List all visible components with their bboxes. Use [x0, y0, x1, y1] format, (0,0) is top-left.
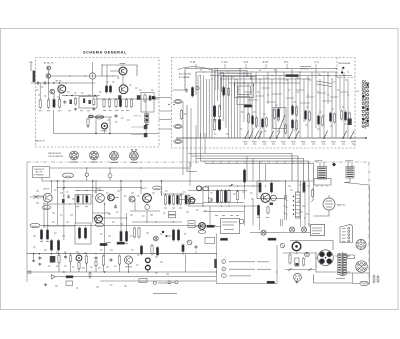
wire y269 diode arrows	[285, 269, 315, 271]
wire x121 vert	[120, 181, 122, 232]
rotated tiny labels	[279, 219, 281, 221]
meter circle pair b	[175, 281, 178, 284]
diode D1 bar	[211, 198, 213, 203]
wire osc vertical	[92, 79, 94, 95]
oval label BA114	[153, 186, 162, 190]
vert x75.5 low	[75, 204, 77, 223]
supply wire y253.7	[27, 253, 216, 255]
detector resistor r1	[259, 183, 261, 192]
legend text 3	[229, 275, 251, 277]
oval label Q21	[198, 230, 206, 233]
rectifier pin 4	[327, 259, 332, 264]
REGLAGE box text	[222, 221, 237, 223]
capacitor C5	[115, 115, 118, 117]
vert x305	[304, 181, 306, 227]
antenna terminal dot2	[341, 71, 343, 73]
driver junctions	[165, 193, 166, 194]
hanging resistors row	[248, 114, 250, 122]
socket bottom circle	[294, 273, 302, 281]
wire vert x185	[184, 254, 186, 272]
switch labels row	[243, 141, 248, 143]
tuning gang capacitor CV	[95, 115, 104, 119]
IF coil blob1	[70, 100, 72, 105]
lamp L4 X	[281, 244, 284, 247]
oval label Q13	[95, 223, 103, 227]
vert x210 low	[209, 206, 211, 226]
bus end dot	[365, 137, 367, 139]
power area specks	[33, 246, 36, 248]
wire base bus y83	[31, 82, 95, 84]
node b up stub	[109, 168, 111, 174]
wire y253 ps	[283, 252, 316, 254]
connector oval J1	[88, 115, 93, 118]
wire vert Q3 collector	[59, 93, 61, 99]
switch labels row2	[244, 143, 247, 145]
DIN labels	[342, 228, 346, 230]
junction x121	[120, 180, 121, 181]
svg-text:25: 25	[323, 115, 325, 117]
tall element x244.5	[243, 170, 245, 182]
svg-text:REGL 455: REGL 455	[134, 116, 142, 118]
capacitor C3 electrolytic	[53, 100, 55, 108]
chassis left border	[26, 162, 28, 282]
bottom cluster X	[154, 237, 157, 240]
circle psu X	[188, 241, 191, 244]
oval BA114 text	[155, 188, 160, 190]
bottom small resistor b	[138, 228, 140, 237]
legend symbol 1	[222, 260, 226, 264]
wire y181b right	[286, 180, 314, 182]
resistor R62	[289, 255, 291, 263]
small circle under Q14	[145, 205, 150, 210]
resistor R9	[125, 100, 127, 107]
junction ps	[289, 252, 290, 253]
HF/IF board dashed outline	[36, 58, 160, 148]
wire y213 seg	[93, 212, 110, 214]
resistor R54	[102, 256, 104, 265]
ground g51	[45, 283, 47, 284]
resistor R44	[236, 192, 238, 200]
wire V1 bottom	[314, 210, 330, 216]
mains box	[348, 255, 355, 259]
FM small circle	[196, 86, 199, 89]
label Q20	[125, 266, 132, 268]
wire vert x107	[106, 65, 108, 86]
trim stack a2	[218, 106, 220, 117]
IF can box bottom1	[75, 195, 83, 205]
long diagonal wire	[345, 183, 370, 186]
cap C32	[114, 205, 117, 207]
resistor R10	[130, 100, 132, 107]
bundle wire h1	[188, 154, 292, 182]
resistor R21b	[227, 89, 229, 96]
transistor Q11	[96, 194, 105, 203]
transistor Q5 converter	[119, 67, 127, 75]
resistor R63	[89, 273, 91, 277]
junction loop	[106, 75, 107, 76]
bundle wire h4	[201, 161, 309, 181]
mains terminal b	[377, 277, 379, 282]
terminal dots col	[293, 196, 294, 197]
svg-text:ET GAMME: ET GAMME	[179, 76, 190, 79]
left col arrow	[312, 198, 315, 202]
stub node a	[86, 176, 88, 181]
meter circle pair a	[168, 281, 171, 284]
wire Q5 down	[122, 75, 124, 85]
socket S4 top pins	[131, 149, 133, 152]
resistor R1	[39, 100, 41, 107]
antenna terminal wire	[341, 69, 343, 72]
junction supply	[33, 253, 34, 254]
capacitor C2 on bus	[43, 82, 45, 85]
chassis dash-dot top border	[27, 161, 369, 163]
wire long y133.5	[54, 133, 159, 135]
NOTA text	[312, 227, 322, 229]
converter label	[120, 63, 126, 65]
bottom cluster resistor b	[177, 230, 179, 240]
socket pins	[295, 275, 296, 276]
capacitor C50	[38, 257, 41, 259]
cap C31	[67, 195, 70, 197]
IF coil blob4	[89, 100, 91, 104]
ratio box ticks	[316, 185, 318, 187]
tube V1 EABC80	[323, 198, 335, 210]
wire y187.5 rail	[58, 187, 142, 189]
connector oval J4	[174, 140, 182, 144]
arrow mark	[229, 184, 234, 186]
lamp L4 small	[280, 243, 285, 248]
junction dots on bus	[48, 82, 49, 83]
resistor R4	[93, 99, 95, 105]
junction x96 y181	[95, 180, 96, 181]
wire trimmer vert	[145, 99, 147, 114]
capacitor C4	[63, 101, 66, 103]
volume label	[101, 130, 107, 132]
value labels row2	[103, 110, 106, 112]
transistor Q15 small	[129, 196, 135, 202]
antenna terminal dot1	[342, 67, 344, 69]
rectifier left wire	[316, 252, 335, 272]
bottom cluster dark dot b	[166, 235, 168, 237]
legend symbol 3	[221, 274, 226, 278]
wire y186	[205, 185, 262, 187]
junction y202	[217, 202, 218, 203]
svg-text:G O: G O	[244, 61, 249, 64]
wire vert x104.6	[104, 202, 106, 256]
connector strip ticks	[362, 82, 370, 85]
faint footer text	[153, 293, 177, 295]
transistor Q20	[124, 256, 132, 264]
link wire y129	[159, 128, 172, 130]
wire y196 seg	[34, 195, 44, 197]
switch diagonal AM	[279, 115, 285, 130]
svg-text:ANTENNE AM: ANTENNE AM	[339, 62, 351, 65]
bus y75.5	[210, 75, 352, 77]
label stubs	[195, 64, 197, 69]
volume pot stub	[104, 129, 106, 134]
connector oval J2	[174, 100, 182, 104]
wire y226 mid	[195, 225, 221, 227]
V1 top lead	[328, 195, 330, 198]
info box text	[189, 223, 194, 225]
tube socket S1	[70, 151, 79, 160]
vert x135 mid	[134, 199, 136, 211]
junction y190 mid	[217, 190, 218, 191]
left step wire 1	[173, 69, 186, 91]
IF can inner resistor	[144, 95, 146, 101]
comb junction dots	[204, 72, 205, 73]
vert x190	[189, 162, 191, 186]
ground g50	[39, 263, 41, 264]
detector resistor r2	[270, 183, 272, 192]
svg-text:AF 117: AF 117	[142, 187, 148, 190]
resistor R58	[156, 248, 158, 256]
diode D3	[52, 275, 56, 280]
vert x161	[161, 181, 163, 196]
output tube EL84 dark	[292, 242, 301, 251]
value labels under IF1	[68, 110, 71, 112]
svg-text:P O: P O	[284, 61, 288, 64]
junction sprinkle bottom	[57, 187, 58, 188]
transistor Q3 AF125	[58, 85, 66, 93]
svg-text:CDE DE SERVICE: CDE DE SERVICE	[48, 156, 64, 158]
resistor R47 dark	[303, 183, 305, 192]
V2 center	[360, 244, 361, 245]
bundle vertical x205b	[204, 133, 206, 154]
bottom small resistor a	[133, 228, 135, 237]
trimmer t1 leads	[30, 196, 34, 198]
transistor Q12 dark	[108, 194, 115, 201]
lamp L3	[301, 227, 306, 232]
resistor R61	[303, 259, 305, 266]
TR1 leads	[319, 163, 321, 167]
cable hatches	[284, 198, 288, 201]
NOTA box	[311, 225, 325, 236]
tall resistor R43	[228, 191, 230, 203]
left col resistor	[312, 190, 314, 197]
svg-text:PRECAUTIONS: PRECAUTIONS	[48, 152, 62, 155]
psu ground	[33, 259, 35, 260]
junction y76	[69, 75, 70, 76]
resistor R3	[58, 100, 60, 108]
link wire y111	[159, 110, 172, 112]
feed wire drop left	[41, 178, 43, 182]
resistor R60 dark	[182, 245, 184, 252]
note text lines	[300, 66, 311, 68]
mains terminal a	[373, 276, 375, 282]
TR2 bottom lead	[345, 178, 351, 183]
IF transformer TR2	[346, 167, 354, 179]
connector strip squiggle	[365, 80, 367, 129]
wire vert x57.5	[57, 181, 59, 225]
transistor Q14 dark ring	[143, 194, 152, 203]
lamp bus wire	[250, 232, 310, 234]
REGLAGE box 25V	[221, 219, 240, 234]
detector box	[257, 181, 286, 199]
IF can box bottom2	[84, 195, 92, 205]
IF can hatched r2	[86, 196, 88, 203]
note box remark	[139, 278, 147, 282]
volume potentiometer	[102, 123, 108, 129]
label TR ALIM	[336, 278, 345, 280]
capacitor C53	[64, 256, 67, 258]
small dark circle node	[197, 186, 202, 191]
bundle vertical x196b	[195, 125, 197, 164]
wire y76 T2-osc	[51, 75, 90, 77]
small circle node mid	[239, 219, 244, 224]
junction y206	[221, 205, 222, 206]
wire y203.5 driver	[185, 203, 203, 205]
upper feed wire y168	[50, 167, 191, 169]
wire y222 mid	[146, 211, 148, 222]
terminal left edge	[28, 271, 31, 273]
resistor R21	[223, 88, 225, 96]
svg-text:AM - FM: AM - FM	[36, 171, 43, 174]
hatched resistor pair RA	[105, 86, 107, 92]
capacitor C1 on bus	[36, 82, 38, 85]
svg-text:C A F: C A F	[222, 61, 229, 64]
junction y190	[77, 190, 78, 191]
info box small	[188, 221, 195, 228]
vert x51 up	[51, 181, 53, 193]
mains right riser	[369, 185, 371, 283]
oval label text	[65, 175, 71, 177]
ratio box	[314, 179, 331, 186]
rectifier pin 2	[327, 252, 332, 257]
AM coil inner resistor	[277, 110, 279, 121]
resistor R55	[118, 256, 120, 264]
legend dark bar	[214, 259, 217, 268]
pot resistor	[78, 263, 80, 269]
FM bus y68.5	[185, 68, 337, 70]
V2 pins	[360, 241, 362, 243]
rectifier pin 1	[319, 252, 324, 257]
wire y76 right	[96, 75, 119, 77]
loop rect2	[238, 86, 251, 95]
tube socket V3 top view	[356, 261, 367, 272]
drop x259	[259, 161, 261, 181]
svg-text:CARTE T B: CARTE T B	[35, 140, 46, 143]
arrow x63.9	[63, 187, 66, 190]
svg-text:F C: F C	[315, 61, 319, 64]
value specks mid	[210, 192, 213, 194]
wire y218 rail	[93, 217, 127, 219]
tone hatched r3	[78, 228, 80, 238]
diode arrow 1	[289, 268, 292, 271]
junction y253 more	[65, 253, 66, 254]
cap C52	[109, 259, 111, 262]
label TR1	[315, 160, 323, 162]
mixer bus y95.5	[62, 95, 100, 97]
resistor R5	[103, 100, 105, 107]
lamp L5 X	[305, 253, 308, 256]
capacitor C26 dark	[348, 119, 352, 126]
power transformer primary	[338, 254, 341, 275]
wire y226 left rail	[44, 225, 75, 227]
transistor T2	[46, 74, 51, 79]
transformer core lines	[341, 252, 343, 277]
node a up stub	[86, 168, 88, 173]
resistor R51	[57, 241, 59, 251]
junction J2 dots	[168, 104, 169, 105]
legend text 1	[229, 261, 255, 263]
rectifier top wire	[297, 241, 334, 251]
value labels R30 R31	[40, 241, 43, 243]
FM resistor R20	[191, 88, 193, 97]
tuner board dashed outline	[172, 58, 356, 149]
IF can coil blob5	[118, 95, 121, 99]
resistor R50	[50, 241, 52, 251]
REGLAGE stack box2	[169, 215, 176, 218]
tube socket S2	[90, 151, 99, 160]
cable cross ticks	[317, 81, 332, 84]
AM coil box	[273, 108, 286, 129]
junction mixer bus	[71, 95, 72, 96]
resistor R6	[108, 100, 110, 107]
vert x259 low	[259, 215, 261, 230]
resistor R53	[85, 256, 87, 263]
junction y187.5	[63, 187, 64, 188]
antenna rod	[30, 62, 32, 71]
vertical comb dense band	[197, 76, 199, 138]
bottom cluster resistor a	[172, 230, 174, 240]
dark network bar	[66, 276, 73, 278]
bundle wire h3	[196, 159, 304, 183]
dark cluster	[50, 256, 56, 263]
connector strip contacts	[362, 80, 364, 82]
wire T1-T2 vertical	[48, 70, 50, 83]
tone block box	[75, 223, 91, 244]
small marks top	[106, 242, 111, 244]
wire vert R1 top	[39, 83, 41, 100]
trim stack a1	[213, 106, 215, 117]
wire y283.5 legend	[216, 283, 277, 285]
tall element lead	[244, 182, 246, 199]
rail y281	[100, 280, 216, 282]
lamp L1	[261, 230, 266, 235]
bus y72	[196, 71, 337, 73]
staircase wire 2	[218, 74, 251, 91]
cap C51	[95, 257, 98, 259]
junction x51	[51, 180, 52, 181]
staircase wire 3	[222, 77, 257, 93]
junction y222	[146, 221, 147, 222]
diamond symbol	[332, 163, 336, 167]
resistor R2	[47, 100, 49, 107]
junction x57 y181	[57, 180, 58, 181]
wire y204	[44, 203, 75, 205]
junction x92.8	[92, 180, 93, 181]
DIN connector outline	[340, 225, 353, 243]
V1 electrodes	[326, 200, 333, 202]
IF can coil blob6	[137, 95, 141, 100]
driver dark transistor	[189, 198, 195, 204]
antenna corner dashed bottom	[337, 77, 355, 79]
FM brace	[178, 67, 214, 71]
small circle psu	[187, 240, 192, 245]
staircase wire 1	[215, 71, 247, 91]
long rail y225.5	[58, 225, 217, 227]
value label R2	[47, 110, 50, 112]
vert x208 mid	[208, 186, 210, 198]
driver cluster ticks	[164, 207, 167, 209]
lamp L3 X	[302, 228, 305, 231]
trim stack a3	[213, 120, 215, 130]
transistor Q10	[43, 193, 52, 202]
switch contacts	[245, 131, 249, 138]
IF transformer box1	[79, 97, 97, 109]
resistor R57	[151, 246, 153, 255]
